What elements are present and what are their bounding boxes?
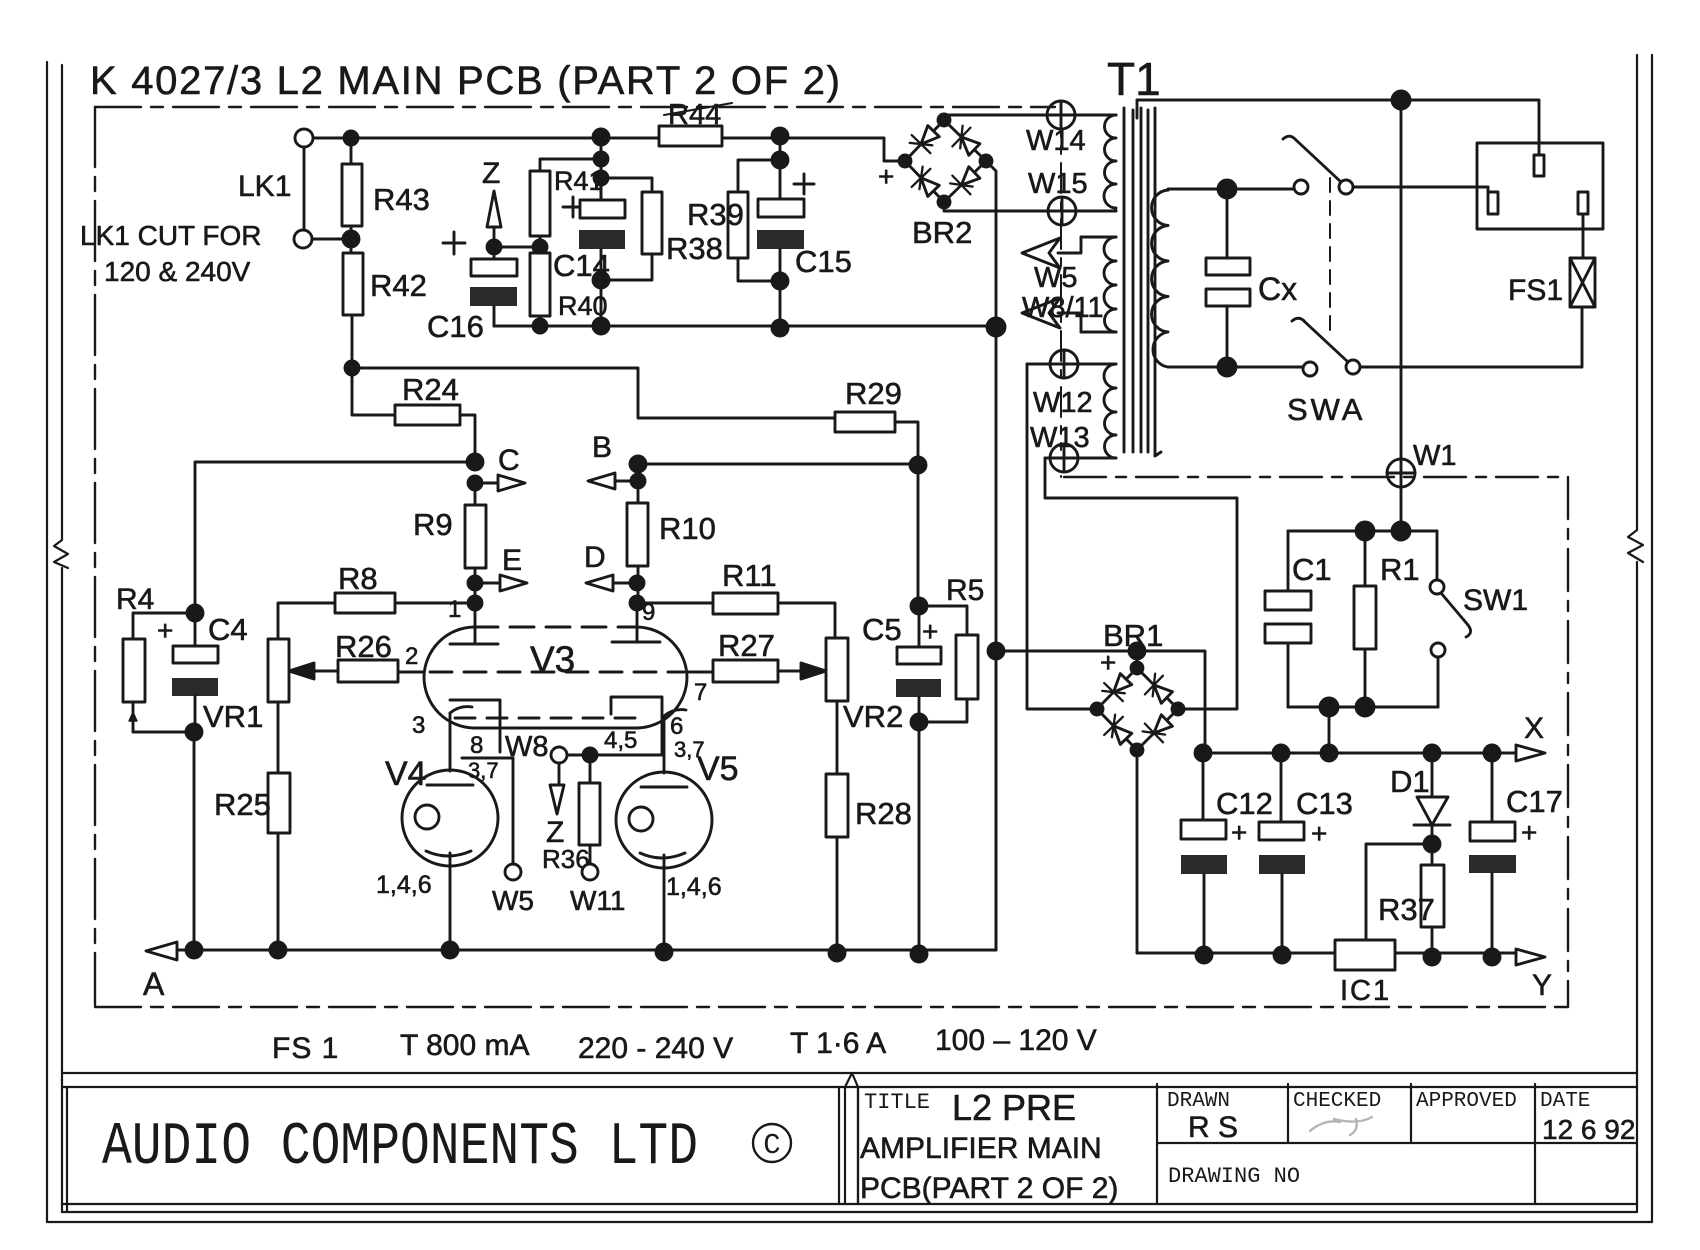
- boundary W column circles redraw: [1060, 476, 1062, 477]
- T1 winding W14-W15: [1075, 115, 1116, 211]
- svg-text:+: +: [1311, 818, 1327, 849]
- svg-text:12 6 92: 12 6 92: [1542, 1114, 1635, 1145]
- V3 cathode dashed: [455, 717, 640, 720]
- svg-text:A: A: [143, 966, 165, 1002]
- svg-text:120 & 240V: 120 & 240V: [104, 256, 251, 287]
- svg-text:PCB(PART 2 OF 2): PCB(PART 2 OF 2): [860, 1172, 1118, 1205]
- svg-text:V3: V3: [530, 639, 575, 680]
- svg-text:2: 2: [405, 643, 418, 670]
- company box: [67, 1087, 839, 1212]
- title block top strip: [62, 1073, 1637, 1087]
- svg-text:W1: W1: [1413, 440, 1457, 472]
- svg-text:W15: W15: [1028, 168, 1088, 200]
- svg-text:7: 7: [694, 679, 707, 706]
- divider zigzag: [845, 1073, 858, 1204]
- svg-text:Z: Z: [482, 157, 500, 190]
- capacitor C14: [594, 171, 608, 185]
- svg-text:C: C: [763, 1129, 780, 1162]
- svg-text:D1: D1: [1390, 764, 1430, 799]
- wire W1 to C1/R1 top: [1400, 487, 1403, 531]
- svg-text:1,4,6: 1,4,6: [666, 873, 722, 901]
- capacitor Cx: [1226, 189, 1229, 367]
- svg-text:T 800 mA: T 800 mA: [400, 1029, 530, 1062]
- tube V3 envelope: [475, 603, 637, 644]
- svg-text:VR2: VR2: [843, 699, 903, 734]
- svg-text:FS 1: FS 1: [272, 1032, 339, 1065]
- mains plug: [1477, 143, 1603, 229]
- border right break: [1628, 530, 1643, 562]
- rail Y: [1137, 952, 1516, 955]
- svg-text:W5: W5: [1034, 262, 1078, 294]
- svg-text:R39: R39: [687, 197, 744, 232]
- svg-text:IC1: IC1: [1340, 975, 1391, 1007]
- V3 grid pin 2 to R26: [398, 671, 424, 674]
- copyright symbol: [753, 1124, 791, 1162]
- svg-text:R5: R5: [946, 574, 984, 607]
- svg-text:R10: R10: [659, 511, 716, 546]
- wire W12 loop to BR1 left: [1027, 364, 1092, 709]
- V3 cathode right hook: [664, 710, 686, 773]
- capacitor C5: [917, 465, 920, 606]
- border right outer: [1651, 55, 1653, 1222]
- capacitor C15: [779, 160, 782, 199]
- svg-text:1,4,6: 1,4,6: [376, 871, 432, 899]
- resistor R37: [1431, 844, 1434, 865]
- resistor R41: [540, 137, 601, 247]
- wire bottom rail of caps: [494, 325, 996, 328]
- wire D1 node to IC1: [1366, 844, 1432, 940]
- svg-text:C4: C4: [208, 612, 248, 647]
- svg-text:SW1: SW1: [1463, 584, 1528, 617]
- svg-text:C5: C5: [862, 612, 902, 647]
- svg-text:R28: R28: [855, 796, 912, 831]
- diode D1: [1431, 753, 1434, 797]
- svg-text:CHECKED: CHECKED: [1293, 1090, 1381, 1113]
- tube V5: [616, 772, 712, 868]
- wire BR2 right down long vertical: [986, 161, 996, 327]
- node R43/R42: [312, 238, 351, 241]
- boundary right section top dash-dot: [1064, 476, 1568, 478]
- svg-text:L2 PRE: L2 PRE: [952, 1087, 1076, 1128]
- svg-text:R37: R37: [1378, 892, 1435, 927]
- wire C14 col to bottom rail: [600, 280, 603, 326]
- svg-text:+: +: [1521, 817, 1537, 848]
- transformer T1 core: [1124, 108, 1161, 456]
- switch SW1: [1436, 531, 1439, 580]
- resistor R10: [637, 481, 640, 503]
- svg-text:T1: T1: [1107, 53, 1161, 105]
- svg-text:R8: R8: [338, 561, 378, 596]
- regulator IC1: [1335, 940, 1395, 970]
- pcb boundary top dash-dot: [95, 106, 1055, 108]
- capacitor C13: [1280, 753, 1283, 822]
- pcb boundary bottom dash-dot: [95, 1006, 1568, 1008]
- V3 grid dashed: [430, 671, 684, 674]
- svg-text:R11: R11: [722, 558, 777, 593]
- svg-text:LK1: LK1: [238, 170, 291, 203]
- svg-text:C12: C12: [1216, 786, 1273, 821]
- border right inner: [1636, 55, 1638, 1212]
- wire C1/R1 bottom rail: [1288, 706, 1438, 709]
- resistor R40: [533, 240, 547, 254]
- wire C5 to rail: [918, 722, 921, 955]
- svg-text:T 1·6 A: T 1·6 A: [790, 1027, 886, 1060]
- svg-text:W14: W14: [1026, 125, 1086, 157]
- svg-text:K 4027/3 L2 MAIN PCB (PART: K 4027/3 L2 MAIN PCB (PART 2 OF 2): [90, 59, 840, 103]
- connection W5b: [505, 864, 521, 880]
- resistor R11: [630, 596, 644, 610]
- svg-text:DRAWN: DRAWN: [1167, 1090, 1230, 1113]
- svg-text:R38: R38: [666, 231, 723, 266]
- pot VR1: [268, 639, 289, 702]
- resistor R9: [474, 483, 477, 505]
- resistor R27: [713, 660, 778, 682]
- svg-text:R27: R27: [718, 628, 775, 663]
- node top of R43: [344, 131, 358, 145]
- wire T1 top rail: [1137, 100, 1539, 143]
- svg-text:C1: C1: [1292, 552, 1332, 587]
- wire R42 node to R24/R29: [352, 368, 835, 418]
- svg-text:3: 3: [412, 712, 425, 739]
- heater bracket left pin 8: [450, 700, 513, 758]
- svg-text:B: B: [592, 431, 612, 464]
- svg-text:R4: R4: [116, 583, 154, 616]
- svg-text:3,7: 3,7: [674, 737, 705, 762]
- svg-text:Y: Y: [1532, 969, 1552, 1002]
- V3 cathode left hook: [450, 707, 472, 771]
- title cell divider: [1156, 1084, 1158, 1204]
- boundary right section right dash-dot: [1567, 477, 1569, 1007]
- node C: [467, 454, 483, 470]
- svg-text:C15: C15: [795, 244, 852, 279]
- wire W13 loop to BR1 right: [1045, 458, 1237, 709]
- wire W1 vertical: [1400, 100, 1403, 459]
- resistor R28: [836, 701, 839, 774]
- resistor R38: [601, 178, 652, 192]
- resistor R24: [395, 405, 460, 425]
- svg-text:W11: W11: [570, 885, 626, 916]
- svg-text:+: +: [922, 616, 938, 647]
- pcb boundary left: [94, 107, 96, 1005]
- resistor R25: [277, 702, 280, 773]
- pcb boundary vertical at W column: [1060, 107, 1062, 450]
- svg-text:W13: W13: [1030, 422, 1090, 454]
- heater bracket right pins 4,5: [590, 697, 662, 755]
- wire BR1 top rail: [996, 651, 1205, 755]
- wire primary bottom to SWA: [1168, 366, 1302, 369]
- resistor R44: [659, 126, 722, 146]
- svg-text:R29: R29: [845, 376, 902, 411]
- bridge BR2: [905, 120, 986, 202]
- svg-text:E: E: [502, 544, 522, 577]
- net Z arrow down: [558, 763, 561, 785]
- switch SWA lower pole: [1303, 362, 1317, 376]
- svg-text:6: 6: [670, 713, 683, 740]
- rail A: [168, 651, 996, 950]
- row divider: [1157, 1142, 1637, 1144]
- resistor R8: [468, 596, 482, 610]
- svg-text:100 – 120 V: 100 – 120 V: [935, 1024, 1097, 1057]
- svg-text:Cx: Cx: [1258, 271, 1297, 307]
- svg-text:APPROVED: APPROVED: [1416, 1090, 1517, 1113]
- svg-text:+: +: [1231, 817, 1247, 848]
- border left break: [54, 540, 68, 568]
- pot VR2: [826, 638, 848, 701]
- wire BR2 bottom to W15: [944, 202, 1048, 211]
- svg-text:R9: R9: [413, 507, 453, 542]
- V3 anode right: [612, 641, 660, 644]
- wire long vertical to BR1 top: [995, 327, 998, 950]
- wire top rail: [304, 138, 902, 161]
- svg-text:X: X: [1524, 712, 1544, 745]
- connection W11: [582, 864, 598, 880]
- wire C1/R1 top rail: [1288, 530, 1437, 533]
- node Z/C16: [487, 240, 501, 254]
- tube V4: [402, 770, 498, 866]
- faint CT initials: [1310, 1117, 1372, 1135]
- svg-text:C16: C16: [427, 309, 484, 344]
- svg-text:DRAWING NO: DRAWING NO: [1168, 1164, 1300, 1189]
- wire C4 to rail A: [193, 732, 196, 950]
- net E arrow: [474, 568, 477, 603]
- svg-text:4,5: 4,5: [604, 727, 637, 754]
- fuse FS1: [1570, 258, 1595, 307]
- svg-text:V4: V4: [385, 755, 427, 793]
- border left inner: [61, 65, 63, 1212]
- svg-text:R24: R24: [402, 372, 459, 407]
- tap W8/11 arrow: [1058, 313, 1116, 332]
- svg-text:BR2: BR2: [912, 215, 972, 250]
- wire BR1 bottom to Y rail: [1136, 750, 1139, 953]
- svg-text:1: 1: [448, 596, 461, 623]
- svg-text:+: +: [878, 161, 894, 192]
- SWA link dashed: [1329, 178, 1331, 333]
- svg-text:C17: C17: [1506, 784, 1563, 819]
- svg-text:R S: R S: [1188, 1111, 1238, 1144]
- tap W5 arrow: [1058, 237, 1116, 253]
- resistor R26: [338, 660, 398, 682]
- svg-text:W8/11: W8/11: [1022, 292, 1104, 324]
- wire heater to W5: [512, 758, 515, 864]
- svg-text:R42: R42: [370, 268, 427, 303]
- V3 anode left: [450, 643, 498, 646]
- capacitor C1: [1287, 531, 1290, 591]
- connection W8: [551, 747, 567, 763]
- connection W14: [1047, 101, 1075, 129]
- connection W15: [1048, 197, 1076, 225]
- T1 primary winding: [1152, 190, 1168, 367]
- capacitor C12: [1202, 753, 1205, 820]
- link LK1: [295, 129, 313, 147]
- net D arrow: [637, 566, 640, 603]
- title block bottom lines: [62, 1203, 1637, 1205]
- wire SWA lower to FS1: [1360, 307, 1582, 367]
- border left outer: [46, 62, 48, 1222]
- resistor R39: [779, 136, 782, 160]
- resistor R42: [350, 226, 353, 253]
- resistor R29: [835, 412, 895, 432]
- svg-text:R26: R26: [335, 629, 392, 664]
- svg-text:LK1 CUT FOR: LK1 CUT FOR: [80, 220, 262, 251]
- resistor R43: [350, 138, 353, 164]
- svg-text:R1: R1: [1380, 552, 1420, 587]
- svg-text:220 - 240 V: 220 - 240 V: [578, 1032, 733, 1065]
- wire C node left to R4 col: [195, 462, 475, 613]
- T1 winding W5-W8/11: [1081, 237, 1116, 332]
- svg-text:R43: R43: [373, 182, 430, 217]
- wire SWA upper to plug: [1353, 186, 1488, 189]
- node right of R44: [772, 128, 788, 144]
- svg-text:R44: R44: [668, 99, 721, 131]
- border bottom: [62, 1211, 1637, 1213]
- svg-text:W12: W12: [1033, 387, 1093, 419]
- node B: [630, 456, 646, 472]
- svg-text:DATE: DATE: [1540, 1090, 1590, 1113]
- capacitor C17: [1491, 753, 1494, 822]
- svg-text:AMPLIFIER MAIN: AMPLIFIER MAIN: [860, 1132, 1102, 1165]
- wire primary top to SWA: [1168, 189, 1293, 190]
- plus C16: [443, 232, 465, 254]
- resistor R36: [589, 755, 592, 783]
- svg-text:R25: R25: [214, 787, 271, 822]
- node below C15: [772, 273, 788, 289]
- T1 winding W12-W13: [1078, 364, 1116, 458]
- svg-text:D: D: [584, 541, 606, 574]
- node below C14: [593, 272, 609, 288]
- svg-text:W5: W5: [492, 885, 534, 916]
- svg-text:AUDIO COMPONENTS LTD: AUDIO COMPONENTS LTD: [102, 1114, 698, 1182]
- svg-text:C13: C13: [1296, 786, 1353, 821]
- capacitor C4: [194, 613, 197, 646]
- svg-text:9: 9: [642, 599, 655, 626]
- node left of R44: [593, 129, 609, 145]
- svg-text:W8: W8: [505, 731, 549, 763]
- connection W1: [1387, 459, 1415, 487]
- svg-text:SWA: SWA: [1287, 392, 1365, 427]
- svg-text:TITLE: TITLE: [864, 1090, 930, 1115]
- capacitor C16: [493, 247, 496, 259]
- connection W13: [1045, 444, 1079, 472]
- svg-text:+: +: [157, 615, 173, 646]
- svg-text:VR1: VR1: [203, 699, 263, 734]
- V3 grid pin 7 to R27: [687, 671, 713, 674]
- connection W12: [1027, 350, 1078, 378]
- switch SWA upper pole: [1294, 180, 1308, 194]
- wire BR2 top to W14: [944, 115, 1047, 120]
- bridge BR1: [1097, 668, 1178, 750]
- svg-text:3,7: 3,7: [468, 758, 499, 783]
- svg-text:C: C: [498, 444, 520, 477]
- resistor R1: [1364, 531, 1367, 586]
- svg-text:8: 8: [470, 732, 483, 759]
- drawn/checked/approved/date dividers: [1288, 1084, 1535, 1204]
- rail X: [1203, 752, 1516, 755]
- wire R42 to lower rail: [351, 315, 354, 368]
- svg-text:FS1: FS1: [1508, 274, 1563, 307]
